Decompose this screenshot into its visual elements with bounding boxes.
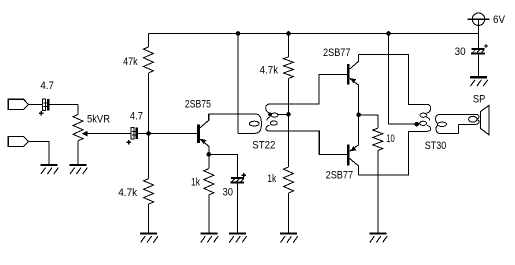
wire common emitter to 10 — [359, 115, 378, 128]
wire input to cap — [29, 103, 43, 105]
resistor 1k emitter — [204, 169, 214, 195]
wire tap to 1k bias — [288, 114, 290, 167]
wire lower emitter — [350, 115, 359, 151]
wire 4.7k bias to tap — [288, 78, 290, 114]
potentiometer 5kVR body — [73, 115, 83, 141]
label 6V — [493, 14, 506, 26]
speaker SP — [480, 106, 488, 135]
transistor 2SB77 upper base bar — [347, 64, 350, 85]
wire 47k to base junction — [147, 73, 149, 134]
transformer ST22 secondary winding — [266, 104, 278, 131]
ground 4.7k — [140, 234, 158, 243]
wire pot top lead — [77, 104, 79, 114]
label 1k emitter — [191, 176, 200, 188]
label 47k — [123, 56, 138, 68]
transformer ST30 secondary winding — [436, 114, 479, 133]
transistor 2SB77 lower base bar — [347, 145, 350, 166]
wire rail corner to 47k — [147, 34, 149, 48]
label 30 supply cap — [455, 46, 466, 58]
ground 1k emitter — [200, 234, 218, 243]
ground bias divider — [280, 234, 298, 243]
arrow 2SB75 emitter — [201, 139, 207, 144]
wire ST22 sec top to upper base — [270, 75, 347, 105]
wire base junction to 4.7k — [148, 134, 150, 179]
svg-text:47k: 47k — [123, 56, 138, 68]
wire 2SB75 collector to ST22 primary — [209, 113, 255, 115]
node ST22 tap junction — [286, 112, 291, 117]
node common emitter junction — [356, 113, 361, 118]
connector input ground side — [8, 136, 28, 146]
wire 1k to ground — [208, 195, 210, 234]
wire top supply rail — [148, 33, 478, 35]
svg-text:4.7: 4.7 — [130, 111, 143, 123]
node rail-ST22 junction — [236, 31, 241, 36]
resistor 4.7k driver bias — [284, 57, 294, 79]
node 2SB75 emitter junction — [207, 152, 212, 157]
wire rail to 4.7k bias — [288, 34, 290, 57]
wire cap2 to base junction — [138, 133, 197, 135]
wire bypass cap to ground — [236, 184, 238, 234]
wire upper emitter — [350, 79, 359, 115]
capacitor 30 supply filter — [471, 44, 488, 55]
svg-text:2SB77: 2SB77 — [323, 47, 351, 59]
wire upper collector — [350, 55, 359, 70]
label ST30 — [425, 140, 447, 152]
wire upper collector to ST30 — [359, 55, 427, 105]
ground pot — [70, 165, 88, 174]
label 4.7 coupling cap — [130, 111, 143, 123]
wire 4.7k to ground — [148, 204, 150, 234]
capacitor 4.7 input coupling — [39, 99, 49, 115]
resistor 1k bias — [284, 167, 294, 193]
wire 1k bias to ground — [288, 193, 290, 234]
wire emitter to 1k — [208, 154, 210, 168]
wire 2SB75 emitter — [200, 139, 209, 154]
capacitor 30 emitter bypass — [231, 173, 246, 184]
svg-text:4.7k: 4.7k — [118, 187, 137, 199]
node rail-ST30 junction — [386, 31, 391, 36]
connector input signal — [8, 99, 28, 109]
transformer ST30 primary winding — [420, 104, 431, 131]
svg-text:10: 10 — [386, 133, 395, 145]
label 2SB77 lower — [326, 170, 354, 182]
svg-text:4.7: 4.7 — [40, 80, 54, 92]
svg-text:1k: 1k — [267, 173, 276, 185]
wire 6V rail to cap — [477, 34, 479, 48]
transformer ST22 primary winding — [238, 114, 261, 133]
ground input — [41, 165, 59, 174]
wire ST22 centre tap — [277, 113, 289, 115]
ground 10 resistor — [369, 234, 387, 243]
svg-text:30: 30 — [223, 187, 234, 199]
wire supply cap to ground — [477, 55, 479, 78]
svg-text:6V: 6V — [493, 14, 506, 26]
label SP — [473, 94, 486, 106]
label 2SB75 — [185, 99, 211, 111]
label 4.7 input cap — [40, 80, 54, 92]
wire cap to pot top — [49, 103, 78, 105]
label 5kVR — [87, 113, 110, 125]
power terminal 6V — [468, 13, 490, 34]
svg-text:1k: 1k — [191, 176, 200, 188]
resistor 10 common emitter — [373, 128, 383, 150]
resistor 4.7k bias — [144, 179, 154, 204]
svg-text:SP: SP — [473, 94, 486, 106]
label 4.7k driver bias — [260, 65, 279, 77]
svg-text:30: 30 — [455, 46, 466, 58]
svg-text:2SB75: 2SB75 — [185, 99, 211, 111]
arrow upper emitter — [351, 78, 357, 83]
wire rail to ST22 primary — [237, 34, 239, 134]
wire rail to ST30 tap — [389, 34, 420, 125]
wire 2SB75 collector — [200, 114, 209, 128]
svg-text:ST22: ST22 — [252, 140, 275, 152]
label 10 — [386, 133, 395, 145]
ground bypass cap — [229, 234, 247, 243]
label 2SB77 upper — [323, 47, 351, 59]
label ST22 — [252, 140, 275, 152]
wire lower collector — [350, 159, 359, 175]
node ST30 tap junction — [415, 122, 420, 127]
ground supply — [470, 77, 488, 86]
node rail-bias junction — [286, 31, 291, 36]
wiper arrow 5kVR — [82, 131, 131, 137]
wire lower collector to ST30 — [359, 131, 427, 175]
label 4.7k bias — [118, 187, 137, 199]
wire ST22 sec bottom to lower base — [270, 131, 347, 155]
svg-text:ST30: ST30 — [425, 140, 447, 152]
wire emitter junction to bypass cap — [209, 155, 238, 178]
label 30 bypass cap — [223, 187, 234, 199]
label 1k bias — [267, 173, 276, 185]
svg-text:5kVR: 5kVR — [87, 113, 110, 125]
wire lower connector to ground — [29, 142, 50, 166]
wire 10 to ground — [377, 151, 379, 234]
capacitor 4.7 coupling to base — [127, 128, 138, 145]
transistor 2SB75 base bar — [197, 124, 200, 143]
resistor 47k — [143, 47, 153, 73]
svg-text:4.7k: 4.7k — [260, 65, 279, 77]
wire pot bottom lead — [77, 141, 79, 165]
svg-text:2SB77: 2SB77 — [326, 170, 354, 182]
arrow lower emitter — [351, 146, 357, 151]
node base junction 2SB75 — [146, 131, 151, 136]
